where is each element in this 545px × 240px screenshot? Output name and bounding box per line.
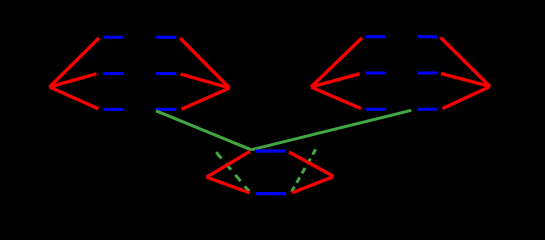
wire: green dashed chord to node E (bottom-left) xyxy=(216,152,249,191)
wire: hexagon red edge F-A xyxy=(207,151,251,177)
wire: hexagon top edge blue dash A-B xyxy=(255,149,286,152)
node L1 (left gadget, left hub vertex) xyxy=(0,0,1,1)
wire: green solid edge from right gadget bottom row to node A xyxy=(251,110,411,150)
wire: left gadget edge2 red segment from middle row to L2 xyxy=(181,74,230,88)
wire: right gadget edge1 red segment from R1 to top row xyxy=(311,38,362,87)
wire: hexagon red edge F-E xyxy=(207,177,250,193)
wire: left gadget edge2 red segment from L1 to middle row xyxy=(50,74,97,87)
wire: right gadget edge3 blue dash 2 (bottom row) xyxy=(417,108,437,111)
wire: right gadget edge1 blue dash 2 (top row) xyxy=(417,35,437,38)
wire: green dashed chord to node D (bottom-right) xyxy=(292,149,316,192)
wire: hexagon red edge C-D xyxy=(292,177,334,193)
wire: right gadget edge2 red segment from middle row to R2 xyxy=(441,74,490,87)
wire: hexagon red edge B-C xyxy=(289,152,334,176)
wire: hexagon bottom edge blue dash E-D xyxy=(255,192,286,195)
wire: left gadget edge3 red segment from L1 to bottom row xyxy=(50,87,99,109)
wire: right gadget edge2 blue dash 2 (middle row) xyxy=(417,72,437,75)
wire: right gadget edge1 blue dash 1 (top row) xyxy=(366,35,386,38)
wire: left gadget edge2 blue dash 1 (middle row) xyxy=(103,72,123,75)
wire: right gadget edge1 red segment from top row to R2 xyxy=(441,37,491,86)
wire: left gadget edge2 blue dash 2 (middle row) xyxy=(156,72,177,75)
node A (hexagon top-left vertex) xyxy=(0,0,1,1)
wire: left gadget edge1 red segment from top row to L2 xyxy=(180,38,230,88)
node R2 (right gadget, right hub vertex) xyxy=(0,0,1,1)
wire: right gadget edge3 red segment from R1 to bottom row xyxy=(311,87,361,109)
wire: right gadget edge3 red segment from bottom row to R2 xyxy=(443,87,491,109)
wire: left gadget edge3 blue dash 1 (bottom row) xyxy=(103,108,123,111)
wire: left gadget edge1 blue dash 1 (top row) xyxy=(103,36,123,39)
wire: right gadget edge2 blue dash 1 (middle row) xyxy=(366,72,386,75)
wire: right gadget edge2 red segment from R1 to middle row xyxy=(311,74,360,87)
wire: green solid edge from left gadget bottom row to node A xyxy=(156,111,251,150)
wire: left gadget edge1 red segment from L1 to top row xyxy=(50,38,100,87)
wire: right gadget edge3 blue dash 1 (bottom row) xyxy=(366,108,386,111)
wire: left gadget edge3 red segment from bottom row to L2 xyxy=(182,88,230,109)
node L2 (left gadget, right hub vertex) xyxy=(0,0,1,1)
wire: left gadget edge1 blue dash 2 (top row) xyxy=(156,36,177,39)
node R1 (right gadget, left hub vertex) xyxy=(0,0,1,1)
wire: left gadget edge3 blue dash 2 (bottom row) xyxy=(156,108,177,111)
